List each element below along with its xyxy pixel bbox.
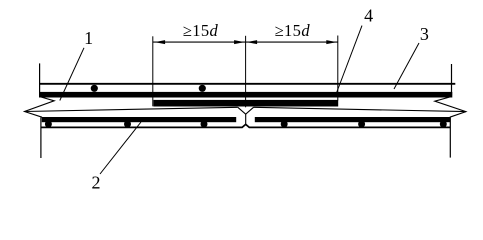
dimension line right ≥15d [246, 41, 338, 43]
extension line left [152, 36, 154, 106]
center V break [238, 107, 254, 114]
svg-text:2: 2 [92, 173, 101, 193]
svg-text:3: 3 [420, 24, 429, 44]
bottom bar right (thick) [255, 117, 451, 122]
top slab face line [39, 83, 455, 85]
bottom row bar section dot C [45, 121, 52, 128]
left boundary vertical line lower segment [40, 118, 42, 159]
leader line 1 [60, 48, 84, 101]
bottom row bar section dot E [201, 121, 208, 128]
leader line 4 [336, 26, 363, 96]
long break line right [254, 107, 466, 111]
right boundary vertical line lower segment [449, 118, 451, 158]
top row bar section dot A [91, 85, 98, 92]
top bar (thick) [39, 92, 452, 98]
bottom row bar section dot F [281, 121, 288, 128]
long break line left [25, 107, 238, 111]
right boundary vertical line upper segment [451, 64, 453, 95]
arrow right-dim left [247, 40, 258, 44]
bottom row bar section dot D [124, 121, 131, 128]
bottom bar left (thick) [42, 117, 236, 122]
arrow left-dim left [155, 40, 166, 44]
right break bolt [435, 97, 466, 118]
bottom row bar section dot G [358, 121, 365, 128]
center lower vertical [245, 114, 247, 124]
bottom row bar section dot H [440, 121, 447, 128]
extension line right [337, 36, 339, 101]
svg-text:≥15d: ≥15d [183, 21, 219, 40]
arrow left-dim right [234, 40, 245, 44]
svg-text:≥15d: ≥15d [275, 21, 311, 40]
top row bar section dot B [199, 85, 206, 92]
extension line center [245, 36, 247, 108]
left boundary vertical line upper segment [39, 63, 41, 96]
lap splice bar 4 (thick, middle) [153, 100, 338, 107]
bottom slab face line with center tent [41, 124, 451, 127]
dimension line left ≥15d [153, 41, 246, 43]
svg-text:1: 1 [84, 28, 93, 48]
leader line 2 [100, 122, 141, 174]
left break bolt [25, 97, 55, 118]
leader line 3 [394, 43, 419, 89]
arrow right-dim right [326, 40, 337, 44]
svg-text:4: 4 [364, 6, 373, 26]
